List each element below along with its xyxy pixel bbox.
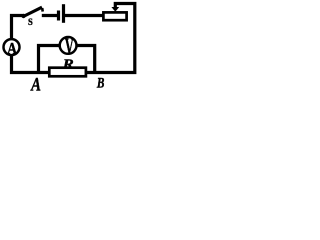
svg-text:A: A bbox=[7, 40, 17, 59]
svg-text:B: B bbox=[96, 74, 105, 91]
svg-text:R: R bbox=[62, 57, 74, 73]
svg-text:S: S bbox=[28, 17, 33, 28]
svg-text:V: V bbox=[65, 34, 74, 59]
svg-text:A: A bbox=[30, 74, 41, 92]
